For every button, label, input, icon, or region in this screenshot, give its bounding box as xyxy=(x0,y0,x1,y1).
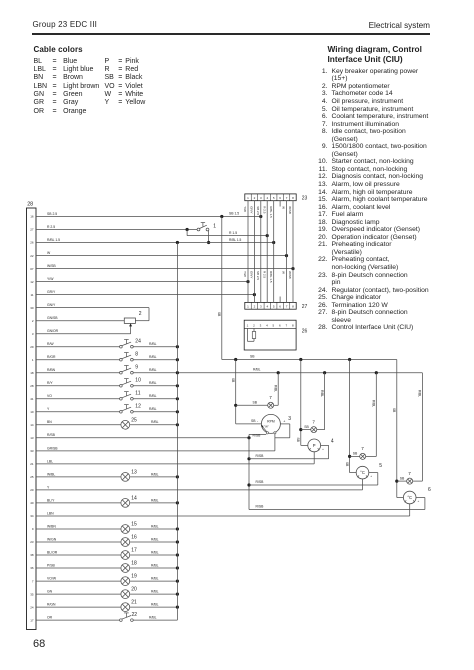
svg-text:5: 5 xyxy=(379,463,382,469)
svg-text:22: 22 xyxy=(132,612,138,618)
wire R 1.5 branch to connector 23 pin 4 xyxy=(187,230,269,238)
svg-text:1: 1 xyxy=(213,224,216,230)
svg-text:GN: GN xyxy=(47,590,53,594)
connector 27 8-pin Deutsch sleeve xyxy=(245,302,308,309)
svg-text:R/BL: R/BL xyxy=(151,498,159,502)
svg-text:W/SB: W/SB xyxy=(288,271,292,279)
svg-text:LBN: LBN xyxy=(47,511,54,515)
svg-text:R/SB: R/SB xyxy=(256,454,265,458)
svg-text:R/BL: R/BL xyxy=(149,368,157,372)
svg-text:SB: SB xyxy=(296,438,300,442)
wire R/BL from lamp 14 to bus xyxy=(130,498,179,504)
switch 11 non-locking contact xyxy=(120,391,141,401)
svg-text:R/SB: R/SB xyxy=(256,480,265,484)
svg-text:24: 24 xyxy=(30,605,34,609)
svg-text:14: 14 xyxy=(131,496,137,502)
svg-text:34: 34 xyxy=(30,514,34,518)
wire SB branch to lamp 7c and oil temperature gauge xyxy=(345,360,360,473)
switch 22 non-locking contact xyxy=(120,612,138,621)
switch 1 key breaker xyxy=(197,223,216,231)
wire pin 34 LBN xyxy=(36,511,410,516)
wire gauge 4 sender to pin 21 LBL xyxy=(313,452,315,464)
svg-text:°C: °C xyxy=(360,470,365,475)
wire R/BL from switch 12 to bus xyxy=(133,407,179,413)
wire R/BL drop to lamp 7c xyxy=(366,373,377,457)
svg-text:36: 36 xyxy=(30,566,34,570)
wire switch 1 output to R/BL row xyxy=(207,231,210,244)
svg-text:7: 7 xyxy=(408,471,411,476)
wire R/BL drop to lamp 7d xyxy=(413,373,423,481)
wire R/BL from lamp 15 to bus xyxy=(130,524,179,530)
wire R/BL from lamp 19 to bus xyxy=(130,577,179,583)
svg-text:SB: SB xyxy=(250,354,255,358)
page number 68 xyxy=(33,638,45,650)
svg-text:LBL: LBL xyxy=(47,459,53,463)
svg-text:R/BL: R/BL xyxy=(151,577,159,581)
svg-text:GN/OR: GN/OR xyxy=(47,329,59,333)
svg-text:W/GN: W/GN xyxy=(47,537,57,541)
wire pin 38 BL/OR to lamp 17 xyxy=(36,550,121,555)
wire R/BL from switch 22 to bus xyxy=(133,616,177,621)
header rule xyxy=(32,33,430,35)
svg-text:BL/OR: BL/OR xyxy=(47,550,58,554)
lamp 25 xyxy=(121,417,137,429)
svg-text:BL/Y: BL/Y xyxy=(47,498,55,502)
svg-text:16: 16 xyxy=(131,535,137,541)
svg-text:41: 41 xyxy=(30,397,34,401)
wire SB branch to lamp 7d and coolant temperature gauge xyxy=(392,360,407,498)
svg-text:35: 35 xyxy=(30,592,34,596)
svg-text:R/BL: R/BL xyxy=(149,355,157,359)
svg-text:07: 07 xyxy=(30,267,34,271)
svg-text:W: W xyxy=(47,251,51,255)
svg-text:BN: BN xyxy=(47,420,52,424)
svg-text:GR/Y: GR/Y xyxy=(250,271,254,278)
svg-text:W: W xyxy=(282,271,286,274)
wire pin 33 GR/SB xyxy=(36,446,275,451)
svg-text:23: 23 xyxy=(302,195,308,201)
RPM potentiometer U3 xyxy=(257,414,291,434)
svg-text:21: 21 xyxy=(131,600,137,606)
lamp 19 xyxy=(121,574,137,586)
wire pin 25 W/BL to lamp 13 xyxy=(36,472,121,477)
svg-text:Y/W: Y/W xyxy=(243,206,247,212)
connector 23 8-pin Deutsch pin xyxy=(245,194,308,201)
lamp 15 xyxy=(121,522,137,534)
wire gauge 5 sender to pin 20 Y xyxy=(362,479,364,490)
wire R/BL drop to lamp 7a xyxy=(273,373,278,406)
wire pin 20 Y xyxy=(36,485,363,490)
wire gauge 6 supply loop to R/SB xyxy=(249,498,425,510)
wire R/BL collector bus xyxy=(176,243,178,621)
svg-text:25: 25 xyxy=(131,417,137,423)
svg-text:R/SB: R/SB xyxy=(47,433,56,437)
wire pin 21 LBL xyxy=(36,459,314,464)
lamp 13 xyxy=(121,470,137,482)
svg-text:SB: SB xyxy=(251,419,256,423)
svg-text:R 2.5: R 2.5 xyxy=(262,206,266,214)
lamp 16 xyxy=(121,535,137,547)
svg-text:°C: °C xyxy=(407,495,412,500)
svg-text:20: 20 xyxy=(30,488,34,492)
svg-text:24: 24 xyxy=(135,339,141,345)
svg-text:R/BL 1.5: R/BL 1.5 xyxy=(269,206,273,218)
wire R/BL from switch 24 to bus xyxy=(133,342,179,348)
svg-text:10: 10 xyxy=(135,378,141,384)
svg-text:GR/Y: GR/Y xyxy=(250,206,254,213)
wire SB distribution horizontal xyxy=(222,354,397,361)
svg-text:R/BL: R/BL xyxy=(149,394,157,398)
svg-text:29: 29 xyxy=(30,345,34,349)
svg-text:20: 20 xyxy=(131,587,137,593)
svg-text:11: 11 xyxy=(30,293,33,297)
lamp 21 xyxy=(121,600,137,612)
lamp 14 xyxy=(121,496,137,508)
lamp 18 xyxy=(121,561,137,573)
wire gauge 4 supply loop to R/SB xyxy=(249,445,329,458)
wire pin 14 BN to lamp 25 xyxy=(36,420,121,425)
wiring diagram title xyxy=(328,44,458,65)
wire R/BL from lamp 17 to bus xyxy=(130,550,179,556)
connector 26 termination 120 ohm xyxy=(244,320,307,350)
svg-text:R 2.5: R 2.5 xyxy=(262,271,266,279)
gauge 4 oil pressure instrument xyxy=(308,439,334,452)
wire pin 13 R/SB wiper connection xyxy=(247,433,266,439)
svg-text:W/BN: W/BN xyxy=(47,524,56,528)
wire pin 3 GN/OR wiper arrow xyxy=(36,323,132,333)
svg-text:SB: SB xyxy=(217,312,221,316)
svg-text:17: 17 xyxy=(131,548,137,554)
svg-text:R/W: R/W xyxy=(47,342,54,346)
svg-text:R/BL: R/BL xyxy=(149,381,157,385)
wire R/BL from switch 9 to bus xyxy=(133,368,422,375)
wire R/SB instrument feed bus xyxy=(247,438,250,510)
wire pin 22 W xyxy=(36,251,288,257)
wire pin 41 VO to switch 11 xyxy=(36,394,120,399)
wire pin 9 W/BN to lamp 15 xyxy=(36,524,121,529)
lamp 7b instrument illumination xyxy=(311,419,317,432)
svg-text:14: 14 xyxy=(30,423,34,427)
svg-text:R/GN: R/GN xyxy=(47,603,56,607)
svg-text:R/BL: R/BL xyxy=(151,524,159,528)
lamp 17 xyxy=(121,548,137,560)
svg-text:Y/W: Y/W xyxy=(243,271,247,277)
svg-text:6: 6 xyxy=(428,487,431,493)
wire pin 29 R/W to switch 24 xyxy=(36,342,120,347)
svg-text:-: - xyxy=(257,419,259,423)
potentiometer R2 (RPM potentiometer) xyxy=(124,311,142,324)
svg-text:3: 3 xyxy=(288,416,291,422)
svg-text:GR/Y: GR/Y xyxy=(47,290,56,294)
wire labels connector 23/27 xyxy=(243,206,292,283)
svg-text:2: 2 xyxy=(139,311,142,317)
wire pin 17 OR to switch 22 xyxy=(36,616,120,621)
wire pin 23 W/GN to lamp 16 xyxy=(36,537,121,542)
svg-text:7: 7 xyxy=(269,395,272,400)
svg-text:8: 8 xyxy=(135,352,138,358)
wire pin 26 R/BL 1.5 xyxy=(36,238,275,244)
svg-text:W: W xyxy=(282,206,286,209)
svg-text:GN/SB: GN/SB xyxy=(47,316,58,320)
svg-text:R/BL: R/BL xyxy=(253,368,261,372)
svg-text:27: 27 xyxy=(302,304,308,310)
gauge 6 coolant temperature instrument xyxy=(403,487,431,504)
switch 24 non-locking contact xyxy=(120,339,141,349)
wire R/BL from switch 11 to bus xyxy=(133,394,179,400)
lamp 7d instrument illumination xyxy=(407,471,413,484)
svg-text:R/BL: R/BL xyxy=(418,390,422,397)
wire pin 16 SB 2.5 xyxy=(36,212,262,218)
svg-text:+: + xyxy=(283,419,285,423)
wire R/BL from lamp 13 to bus xyxy=(130,472,179,478)
svg-text:VO: VO xyxy=(47,394,52,398)
wire gauge 6 sender to pin 34 LBN xyxy=(409,504,411,516)
wire R/BL drop to lamp 7b xyxy=(317,373,325,430)
svg-text:R/BL 1.5: R/BL 1.5 xyxy=(47,238,60,242)
component list 1-28 xyxy=(313,68,315,332)
svg-text:R/SB: R/SB xyxy=(253,433,262,437)
wires between connectors 23 and 27 xyxy=(248,201,293,303)
svg-text:R/BL: R/BL xyxy=(320,390,324,397)
wire R/BL from lamp 16 to bus xyxy=(130,537,179,543)
svg-text:R/BL: R/BL xyxy=(151,603,159,607)
wire pin 40 BL/Y to lamp 14 xyxy=(36,498,121,503)
svg-text:+: + xyxy=(418,499,420,503)
svg-text:SB: SB xyxy=(345,462,349,466)
svg-text:19: 19 xyxy=(131,574,137,580)
wire pin 7 VO/W to lamp 19 xyxy=(36,577,121,582)
svg-text:21: 21 xyxy=(30,462,34,466)
svg-text:40: 40 xyxy=(30,501,34,505)
svg-text:25: 25 xyxy=(30,475,34,479)
svg-text:R/BL: R/BL xyxy=(151,472,159,476)
cable colors legend xyxy=(33,58,35,117)
svg-text:Y/W: Y/W xyxy=(47,277,54,281)
svg-text:+: + xyxy=(370,474,372,478)
wire pin 27 R 2.5 xyxy=(36,225,197,231)
svg-text:R 2.5: R 2.5 xyxy=(47,225,55,229)
svg-text:P/SB: P/SB xyxy=(47,563,55,567)
svg-text:GN/Y: GN/Y xyxy=(47,303,56,307)
svg-text:15: 15 xyxy=(131,522,137,528)
svg-text:R/GR: R/GR xyxy=(47,355,56,359)
wire pin 28 R/Y to switch 10 xyxy=(36,381,120,386)
svg-text:26: 26 xyxy=(302,329,308,335)
svg-text:SB: SB xyxy=(304,425,309,429)
wire SB branch to lamp 7b and oil pressure gauge xyxy=(296,360,311,446)
wire pin 36 P/SB to lamp 18 xyxy=(36,563,121,568)
svg-text:R/BN: R/BN xyxy=(47,368,56,372)
svg-text:R/BL: R/BL xyxy=(149,407,157,411)
svg-text:R/BL: R/BL xyxy=(151,537,159,541)
svg-text:SB: SB xyxy=(253,401,258,405)
svg-text:18: 18 xyxy=(30,371,34,375)
svg-text:R/BL 1.5: R/BL 1.5 xyxy=(229,238,242,242)
svg-text:11: 11 xyxy=(135,391,140,397)
svg-text:38: 38 xyxy=(30,553,34,557)
svg-text:Y: Y xyxy=(47,485,50,489)
svg-text:SB 2.5: SB 2.5 xyxy=(256,271,260,280)
wire RPM pot + loop xyxy=(275,424,290,438)
svg-text:SB: SB xyxy=(231,378,235,382)
CIU pin numbers xyxy=(30,215,34,623)
svg-text:W/SB: W/SB xyxy=(288,206,292,214)
lamp 7c instrument illumination xyxy=(360,446,366,459)
svg-text:R/BL 1.5: R/BL 1.5 xyxy=(269,271,273,283)
svg-text:17: 17 xyxy=(30,618,34,622)
svg-text:33: 33 xyxy=(30,449,34,453)
svg-text:Y: Y xyxy=(47,407,50,411)
svg-text:R/BL: R/BL xyxy=(151,563,159,567)
svg-text:16: 16 xyxy=(30,215,34,219)
header left: Group 23 EDC III xyxy=(33,20,98,29)
lamp 7a instrument illumination xyxy=(268,395,274,408)
svg-text:SB: SB xyxy=(353,452,358,456)
svg-text:SB: SB xyxy=(400,476,405,480)
wire SB branch to lamp 7a and RPM transmitter xyxy=(231,360,268,424)
svg-text:18: 18 xyxy=(131,561,137,567)
svg-text:"W": "W" xyxy=(264,425,269,429)
svg-text:30: 30 xyxy=(30,306,34,310)
svg-text:R/Y: R/Y xyxy=(47,381,53,385)
wire pin 10 Y to switch 12 xyxy=(36,407,120,412)
svg-text:GR/SB: GR/SB xyxy=(47,446,58,450)
connector U28 Control Interface Unit (CIU) xyxy=(27,202,37,630)
switch 12 non-locking contact xyxy=(120,404,141,414)
svg-text:P: P xyxy=(313,443,316,448)
svg-text:12: 12 xyxy=(30,280,34,284)
wire pin 24 R/GN to lamp 21 xyxy=(36,603,121,608)
svg-text:+: + xyxy=(322,447,324,451)
lamp 20 xyxy=(121,587,137,599)
wire pin 07 W/SB xyxy=(36,264,295,270)
svg-text:R/BL: R/BL xyxy=(372,400,376,407)
svg-text:OR: OR xyxy=(47,616,53,620)
node SB 1.5 top feed xyxy=(220,212,239,218)
wire R/BL from lamp 20 to bus xyxy=(130,590,179,596)
wire R/BL from lamp 18 to bus xyxy=(130,563,179,569)
svg-text:7: 7 xyxy=(312,419,315,424)
wire R/BL from lamp 25 to bus xyxy=(130,420,179,426)
svg-text:28: 28 xyxy=(30,384,34,388)
wire pin 30 GN/Y wrap to potentiometer 2 xyxy=(36,303,149,321)
svg-text:23: 23 xyxy=(30,540,34,544)
switch 8 non-locking contact xyxy=(120,352,139,362)
wire pin 11 GR/Y xyxy=(36,290,256,296)
wire pin 2 GN/SB xyxy=(36,316,124,321)
svg-text:28: 28 xyxy=(27,202,33,208)
svg-text:SB 1.5: SB 1.5 xyxy=(229,212,239,216)
svg-text:22: 22 xyxy=(30,254,34,258)
svg-text:SB: SB xyxy=(392,408,396,412)
svg-text:4: 4 xyxy=(331,439,334,445)
gauge 5 oil temperature instrument xyxy=(356,463,382,479)
wire R/BL from switch 10 to bus xyxy=(133,381,179,387)
svg-text:R/BL: R/BL xyxy=(273,385,277,392)
svg-text:10: 10 xyxy=(30,410,34,414)
svg-text:W/SB: W/SB xyxy=(47,264,56,268)
wire pin 18 R/BN to switch 9 xyxy=(36,368,120,373)
svg-text:R/BL: R/BL xyxy=(151,420,159,424)
svg-text:R/BL: R/BL xyxy=(151,550,159,554)
cable colors heading xyxy=(34,45,83,54)
svg-text:VO/W: VO/W xyxy=(47,577,57,581)
switch 10 non-locking contact xyxy=(120,378,141,388)
wire pin 12 Y/W xyxy=(36,277,250,283)
svg-text:7: 7 xyxy=(361,446,364,451)
svg-text:SB 2.5: SB 2.5 xyxy=(256,206,260,215)
svg-text:SB 2.5: SB 2.5 xyxy=(47,212,57,216)
svg-text:RPM: RPM xyxy=(267,419,275,423)
svg-text:27: 27 xyxy=(30,228,34,232)
svg-text:R/SB: R/SB xyxy=(256,505,265,509)
wire R/BL from switch 8 to bus xyxy=(133,355,179,361)
wire SB rail vertical xyxy=(217,217,222,360)
switch 9 non-locking contact xyxy=(120,365,139,375)
svg-text:13: 13 xyxy=(131,470,137,476)
svg-text:R/BL: R/BL xyxy=(149,616,157,620)
wire pin 33 GR/SB riser to pot xyxy=(274,434,276,451)
wire gauge 5 supply loop to R/SB xyxy=(249,473,378,485)
wire pin 13 R/SB xyxy=(36,433,249,438)
svg-text:R/BL: R/BL xyxy=(151,590,159,594)
svg-text:13: 13 xyxy=(30,436,34,440)
svg-text:R 1.5: R 1.5 xyxy=(229,231,237,235)
svg-text:9: 9 xyxy=(135,365,138,371)
svg-text:12: 12 xyxy=(135,404,141,410)
wire pin 35 GN to lamp 20 xyxy=(36,590,121,595)
header right: Electrical system xyxy=(369,21,430,30)
wire pin 1 R/GR to switch 8 xyxy=(36,355,120,360)
wire R/BL from lamp 21 to bus xyxy=(130,603,179,609)
svg-text:W/BL: W/BL xyxy=(47,472,55,476)
svg-text:R/BL: R/BL xyxy=(149,342,157,346)
svg-text:26: 26 xyxy=(30,241,34,245)
